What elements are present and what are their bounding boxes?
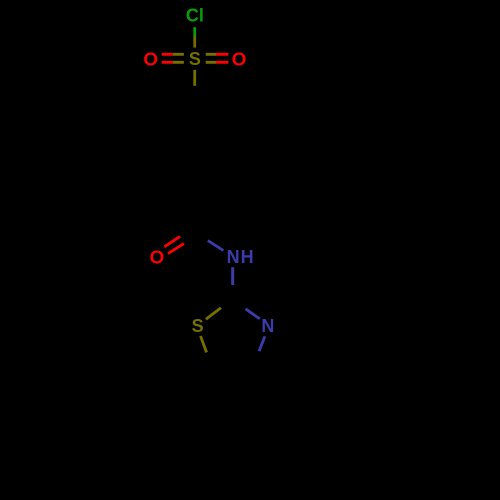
bond N3-C2 (C half invisible) bbox=[233, 300, 246, 309]
svg-text:H: H bbox=[241, 247, 254, 267]
bond S-C1 (S half, olive) bbox=[193, 70, 196, 86]
bond S1-C2 (C half invisible) bbox=[221, 300, 233, 308]
bond N-C2 thiazole (C half invisible) bbox=[231, 285, 234, 300]
svg-text:S: S bbox=[189, 49, 201, 69]
bond S1-C2 (S half, olive) bbox=[206, 308, 221, 320]
bond C4=C5 thiazole double (invisible carbon) bbox=[211, 365, 254, 368]
svg-text:S: S bbox=[192, 316, 204, 336]
S=O left double bond, lower line bbox=[162, 61, 173, 64]
bond N3-C4 (N half, blue) bbox=[259, 336, 265, 351]
bond S-C1 (C half, invisible carbon) bbox=[193, 86, 196, 102]
C=O double bond, lower line (O half red) bbox=[168, 244, 184, 254]
bond C-N amide (C half invisible) bbox=[195, 235, 208, 241]
bond C-N amide (N half, blue) bbox=[208, 241, 224, 251]
benzene ring C1-C2-C3-C4-C5-C6 (invisible carbon bonds) bbox=[157, 102, 232, 189]
svg-text:O: O bbox=[150, 247, 165, 268]
S=O left double bond, upper line (O half red / S half olive) bbox=[162, 53, 173, 56]
svg-text:O: O bbox=[232, 48, 247, 69]
bond C4-C(=O) (invisible carbon) bbox=[193, 188, 196, 234]
svg-text:Cl: Cl bbox=[186, 6, 204, 26]
svg-text:N: N bbox=[227, 247, 240, 267]
svg-text:O: O bbox=[143, 48, 158, 69]
svg-text:N: N bbox=[261, 316, 274, 336]
bond Cl-S (Cl half, green) bbox=[193, 27, 196, 36]
bond Cl-S (S half, olive) bbox=[193, 37, 196, 48]
bond S1-C5 (S half, olive) bbox=[201, 336, 207, 353]
bond N3-C4 (C half invisible) bbox=[255, 351, 260, 367]
bond S1-C5 (C half invisible) bbox=[207, 353, 212, 367]
S=O right double bond, upper line (S half olive / O half red) bbox=[206, 53, 216, 56]
bond N-C2 thiazole (N half, blue) bbox=[231, 267, 234, 285]
bond N3-C2 (N half, blue) bbox=[246, 309, 260, 319]
C=O double bond, upper line (O half red) bbox=[164, 236, 180, 246]
S=O right double bond, lower line bbox=[206, 61, 216, 64]
